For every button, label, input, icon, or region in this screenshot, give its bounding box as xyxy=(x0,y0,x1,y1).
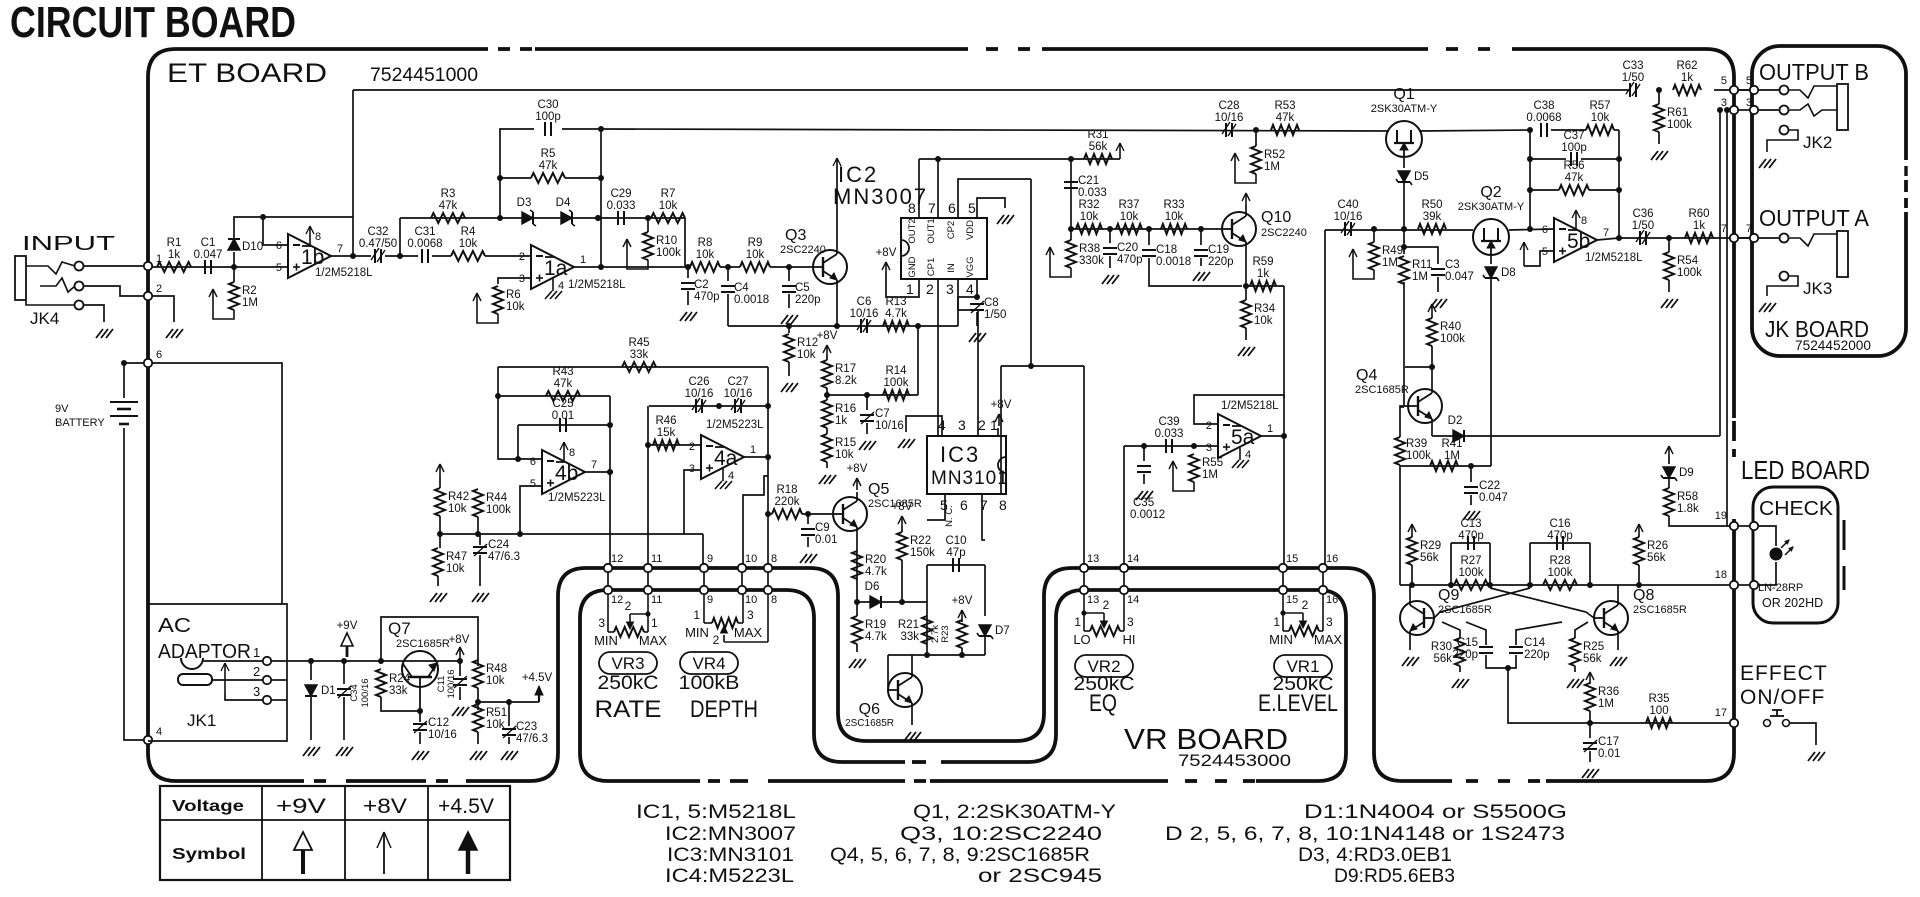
wire pin6 inner wire xyxy=(152,363,282,604)
svg-text:18: 18 xyxy=(1715,569,1727,581)
svg-text:13: 13 xyxy=(1087,594,1099,606)
wire line y129 xyxy=(601,129,1389,131)
svg-text:IC2:MN3007: IC2:MN3007 xyxy=(665,824,796,845)
resistor R10 xyxy=(643,232,681,260)
svg-text:2SC2240: 2SC2240 xyxy=(780,244,826,256)
pin 5 right xyxy=(1750,86,1758,94)
svg-text:C17: C17 xyxy=(1598,736,1619,748)
wire Q9 emitter xyxy=(1409,635,1411,650)
svg-text:R45: R45 xyxy=(628,337,649,349)
label VR1 oval xyxy=(1274,655,1332,677)
node Q4 coll node xyxy=(1429,364,1435,370)
wire pin10 dogleg xyxy=(743,476,768,564)
resistor R40 xyxy=(1427,318,1465,346)
svg-text:6: 6 xyxy=(948,200,956,216)
svg-text:10k: 10k xyxy=(448,503,467,515)
wire filter wire b xyxy=(770,266,813,268)
capacitor C35 xyxy=(1137,466,1151,472)
node op5b node xyxy=(1527,226,1533,232)
svg-text:2: 2 xyxy=(926,281,934,297)
svg-text:220k: 220k xyxy=(775,496,800,508)
node R5 r node xyxy=(598,175,604,181)
svg-text:VR4: VR4 xyxy=(692,654,725,673)
svg-text:2: 2 xyxy=(519,251,525,263)
wire pin9 col xyxy=(702,534,704,564)
svg-text:0.47/50: 0.47/50 xyxy=(359,238,397,250)
svg-text:0.0018: 0.0018 xyxy=(1156,256,1191,268)
IC2 MN3007 box xyxy=(901,200,987,297)
pin 15 ET xyxy=(1279,564,1287,572)
wire output B long wire xyxy=(353,89,1629,91)
svg-text:8: 8 xyxy=(908,200,916,216)
capacitor C19 xyxy=(1194,250,1208,256)
svg-text:LN-28RP: LN-28RP xyxy=(1758,582,1803,594)
+8V label Q5 xyxy=(847,463,868,475)
svg-text:2SK30ATM-Y: 2SK30ATM-Y xyxy=(1458,201,1525,213)
wire C25 line xyxy=(518,424,610,426)
capacitor C13 xyxy=(1458,518,1484,550)
wire pin13 col xyxy=(1083,366,1085,564)
wire LED wire bottom xyxy=(1758,562,1776,585)
+8V arrow R36 arrow xyxy=(1586,672,1594,682)
svg-text:R28: R28 xyxy=(1549,555,1570,567)
pin18 label xyxy=(1715,569,1727,581)
svg-text:D 2, 5, 6, 7, 8, 10:1N4148 or: D 2, 5, 6, 7, 8, 10:1N4148 or 1S2473 xyxy=(1165,824,1565,845)
capacitor C8 xyxy=(970,301,984,313)
+8V arrow D9 arrow xyxy=(1665,446,1673,456)
+8V bottom label xyxy=(0,0,1,1)
resistor R22 xyxy=(897,532,935,560)
svg-text:220p: 220p xyxy=(1452,649,1478,661)
wire R19 lead xyxy=(856,602,858,616)
resistor R36 xyxy=(1585,683,1619,711)
wire R39 bottom xyxy=(1399,465,1401,585)
wire Q6 base line xyxy=(927,654,985,656)
op1b pin7 xyxy=(337,243,343,255)
svg-text:3: 3 xyxy=(689,463,695,475)
ground R54 ground xyxy=(1661,299,1678,308)
wire IC2 pin5 wire xyxy=(977,198,1005,218)
resistor R54 xyxy=(1664,252,1702,280)
capacitor C36 xyxy=(1632,208,1654,245)
capacitor C5 xyxy=(782,286,796,292)
svg-text:10k: 10k xyxy=(1254,315,1273,327)
resistor R8 xyxy=(690,237,720,272)
ground C34 ground xyxy=(336,747,353,756)
svg-text:2: 2 xyxy=(713,633,720,647)
jack JK4 xyxy=(15,256,84,328)
svg-text:C33: C33 xyxy=(1622,60,1643,72)
resistor R61 xyxy=(1654,104,1692,132)
svg-text:C3: C3 xyxy=(1445,259,1460,271)
svg-text:C39: C39 xyxy=(1158,416,1179,428)
IC2 label xyxy=(833,162,928,209)
LED label xyxy=(1758,582,1823,610)
wire R2 branch xyxy=(233,267,235,282)
capacitor C17 xyxy=(1583,740,1597,752)
svg-text:D1: D1 xyxy=(321,685,336,697)
wire battery top wire xyxy=(123,363,125,398)
diode D9 xyxy=(1661,467,1694,481)
wire pin15 col xyxy=(1283,436,1285,564)
svg-text:R31: R31 xyxy=(1087,129,1108,141)
svg-text:1a: 1a xyxy=(544,257,568,280)
diode D5 xyxy=(1396,171,1429,185)
svg-text:C7: C7 xyxy=(875,408,890,420)
resistor R56 xyxy=(1559,160,1589,195)
svg-text:470p: 470p xyxy=(1547,530,1573,542)
wire D1 gnd lead xyxy=(310,697,312,740)
svg-text:Voltage: Voltage xyxy=(172,798,244,815)
svg-text:C5: C5 xyxy=(795,282,810,294)
ground R12 ground xyxy=(781,383,798,392)
svg-text:4: 4 xyxy=(966,281,974,297)
capacitor C15 xyxy=(1479,647,1493,653)
svg-text:D3: D3 xyxy=(517,197,532,209)
svg-text:33k: 33k xyxy=(389,685,408,697)
ground C9 ground xyxy=(800,554,817,563)
wire y466 line xyxy=(1400,465,1491,467)
svg-text:10k: 10k xyxy=(486,719,505,731)
svg-text:R17: R17 xyxy=(835,363,856,375)
svg-text:R6: R6 xyxy=(506,289,521,301)
diode D1 xyxy=(305,685,336,697)
reference arrow R49 ref xyxy=(1349,249,1374,279)
wire C2 gnd xyxy=(687,291,689,305)
svg-text:R23: R23 xyxy=(940,625,951,642)
resistor R32 xyxy=(1076,199,1102,234)
transistor Q3 xyxy=(813,250,847,284)
LED board dashes xyxy=(1843,520,1846,590)
svg-text:R42: R42 xyxy=(448,491,469,503)
svg-text:R10: R10 xyxy=(656,235,677,247)
svg-text:R49: R49 xyxy=(1382,245,1403,257)
wire C10 left col xyxy=(926,565,928,655)
node x598 218 xyxy=(595,215,601,221)
wire Q4 coll stub xyxy=(1405,366,1432,368)
wire jack switch wire A xyxy=(1719,110,1721,436)
svg-text:47k: 47k xyxy=(539,160,558,172)
parts list IC2:MN3007 xyxy=(665,824,796,845)
svg-text:10k: 10k xyxy=(1120,211,1139,223)
svg-text:R29: R29 xyxy=(1420,540,1441,552)
capacitor C16 xyxy=(1547,518,1573,550)
C7 label xyxy=(875,408,904,432)
node rail D1 node xyxy=(308,658,314,664)
wire +4.5 bus xyxy=(478,701,539,703)
+8V label Q7 xyxy=(449,634,470,646)
svg-text:0.01: 0.01 xyxy=(552,410,574,422)
svg-text:R25: R25 xyxy=(1583,641,1604,653)
svg-text:10: 10 xyxy=(745,594,757,606)
parts list Q1, 2:2SK30ATM-Y xyxy=(913,802,1116,823)
VR2 function xyxy=(1089,690,1117,717)
ground R61 ground xyxy=(1651,151,1668,160)
+8V symbol xyxy=(377,832,391,874)
svg-text:220p: 220p xyxy=(1208,256,1234,268)
ground C35 ground xyxy=(1136,491,1153,500)
ground pin2 ground xyxy=(166,329,183,338)
wire IC3 pin4 wire xyxy=(906,416,942,436)
wire R43 line xyxy=(498,395,610,397)
node C23 node xyxy=(506,699,512,705)
capacitor C39 xyxy=(1155,416,1184,453)
wire cross B xyxy=(1434,588,1530,618)
svg-text:VDD: VDD xyxy=(965,220,976,240)
pin 11 ET xyxy=(644,564,652,572)
pin17 label xyxy=(1715,707,1727,719)
wire R54 gnd xyxy=(1668,280,1670,292)
parts list IC4:M5223L xyxy=(665,866,794,887)
title CIRCUIT BOARD xyxy=(10,0,296,47)
op-amp 4b xyxy=(530,442,606,504)
svg-text:C21: C21 xyxy=(1078,175,1099,187)
R24 label xyxy=(389,673,411,697)
C8 label xyxy=(984,297,1006,321)
wire C16 lcol xyxy=(1529,543,1531,585)
svg-text:7: 7 xyxy=(980,497,988,513)
resistor R9 xyxy=(740,237,770,272)
wire C2 lead xyxy=(687,267,689,278)
ground C2 ground xyxy=(680,312,697,321)
svg-text:1/2M5223L: 1/2M5223L xyxy=(548,492,606,504)
parts list D9:RD5.6EB3 xyxy=(1334,866,1455,887)
svg-text:CHECK: CHECK xyxy=(1759,498,1834,520)
C9 label xyxy=(815,522,837,546)
svg-text:1/2M5218L: 1/2M5218L xyxy=(568,279,626,291)
wire C30 right xyxy=(562,128,601,130)
resistor R4 xyxy=(451,226,485,261)
node fb5b n5 xyxy=(1616,187,1622,193)
wire op1b out column xyxy=(352,90,354,256)
wire C22 lead xyxy=(1470,466,1472,482)
svg-text:C16: C16 xyxy=(1549,518,1570,530)
wire pin 15 link xyxy=(1282,572,1284,586)
svg-text:CP2: CP2 xyxy=(946,221,957,239)
ET board outline xyxy=(148,49,1734,781)
wire pin7 link xyxy=(1738,237,1750,239)
wire R17 top xyxy=(826,355,828,360)
pin 2 xyxy=(144,292,152,300)
wire Q5 emitter xyxy=(856,531,858,602)
svg-text:AC: AC xyxy=(158,615,191,637)
svg-text:R16: R16 xyxy=(835,403,856,415)
svg-text:10/16: 10/16 xyxy=(724,388,753,400)
wire R51 gnd xyxy=(477,732,479,744)
svg-text:OR 202HD: OR 202HD xyxy=(1762,596,1823,610)
node rail +8V node xyxy=(457,658,463,664)
wire pin 13 link xyxy=(1083,572,1085,586)
wire C13 rcol xyxy=(1489,543,1491,585)
wire C37 leads b xyxy=(1581,158,1619,160)
effect switch xyxy=(1764,710,1790,727)
svg-text:100k: 100k xyxy=(1667,119,1692,131)
resistor R25 xyxy=(1570,638,1604,666)
INPUT label xyxy=(22,233,115,255)
svg-text:+8V: +8V xyxy=(363,795,407,818)
potentiometer VR1 xyxy=(1269,594,1342,647)
wire y366 wire xyxy=(1001,365,1084,367)
capacitor C32 xyxy=(359,226,397,263)
+8V arrow R26 arrow xyxy=(1635,524,1643,534)
wire bias bus xyxy=(440,533,703,535)
wire pin 16 link xyxy=(1322,572,1324,586)
9V battery xyxy=(55,402,138,429)
wire y286 line xyxy=(1246,285,1284,287)
wire R31 line xyxy=(1071,158,1120,160)
wire IC2 pin4 wire xyxy=(976,279,978,297)
ground IC2 pin5 ground xyxy=(997,215,1014,224)
svg-text:5: 5 xyxy=(530,478,536,490)
potentiometer VR3 xyxy=(594,594,667,648)
resistor R1 xyxy=(157,237,191,272)
svg-text:100p: 100p xyxy=(535,111,561,123)
potentiometer VR4 xyxy=(685,594,768,647)
wire R42 lead xyxy=(439,478,441,488)
svg-text:VR3: VR3 xyxy=(611,654,644,673)
svg-text:ADAPTOR: ADAPTOR xyxy=(158,641,251,663)
node op1a out node xyxy=(598,264,604,270)
svg-text:0.0068: 0.0068 xyxy=(1526,112,1561,124)
svg-text:4: 4 xyxy=(728,470,734,482)
Q10 label xyxy=(1261,209,1307,239)
node y602 n0 xyxy=(854,599,860,605)
svg-text:330k: 330k xyxy=(1079,255,1104,267)
C5 label xyxy=(795,282,821,306)
pin 16 ET xyxy=(1319,564,1327,572)
resistor R49 xyxy=(1369,242,1403,270)
wire y229 right line xyxy=(1325,229,1473,231)
node ff n1 xyxy=(1448,582,1454,588)
ground C7 ground xyxy=(859,441,876,450)
svg-text:R11: R11 xyxy=(1412,259,1432,271)
wire IC2 pin6 wire xyxy=(958,179,1031,218)
ground C19 ground xyxy=(1193,272,1210,281)
svg-text:C14: C14 xyxy=(1524,637,1546,649)
wire pin6 wire xyxy=(124,362,144,364)
JK board dash gaps xyxy=(1901,160,1911,212)
ground C11 ground xyxy=(452,707,469,716)
+9V symbol xyxy=(294,832,312,874)
wire C4 bottom xyxy=(727,294,729,326)
wire op5b pin5 wire xyxy=(1524,251,1554,266)
wire R11 to Q4 xyxy=(1400,406,1404,408)
svg-text:100: 100 xyxy=(1649,705,1668,717)
VR2 value xyxy=(1074,674,1135,695)
VR board label xyxy=(1124,724,1291,770)
+9V label xyxy=(337,620,358,632)
svg-text:1/50: 1/50 xyxy=(984,309,1006,321)
svg-text:100k: 100k xyxy=(1406,450,1431,462)
wire C13 line xyxy=(1451,542,1490,544)
wire switch out xyxy=(1790,723,1816,745)
pin 13 ET xyxy=(1080,564,1088,572)
VR4 value xyxy=(679,673,740,694)
resistor R35 xyxy=(1646,693,1672,728)
+8V label IC3 xyxy=(991,399,1012,411)
svg-text:10k: 10k xyxy=(797,349,816,361)
wire Q6 emitter xyxy=(911,707,913,725)
svg-text:R40: R40 xyxy=(1440,321,1461,333)
svg-text:IC3:MN3101: IC3:MN3101 xyxy=(667,845,794,866)
resistor R26 xyxy=(1634,537,1668,565)
svg-text:3: 3 xyxy=(1326,615,1333,629)
svg-text:OUTPUT B: OUTPUT B xyxy=(1759,59,1869,85)
wire C38-R57 xyxy=(1551,129,1586,131)
svg-text:7: 7 xyxy=(591,459,597,471)
+9V arrow +9V rail arrow xyxy=(341,633,353,657)
op-amp 4a xyxy=(689,419,764,489)
wire op4b pin5 wire xyxy=(520,486,542,534)
op-amp 1a xyxy=(519,245,626,299)
wire D1 lead xyxy=(310,661,312,680)
VR1 function xyxy=(1258,690,1338,717)
reference arrow R55 ref xyxy=(1169,461,1194,491)
svg-text:4: 4 xyxy=(558,280,564,292)
svg-text:R15: R15 xyxy=(835,437,856,449)
node C22 node xyxy=(1468,463,1474,469)
svg-text:1/2M5218L: 1/2M5218L xyxy=(315,267,373,279)
svg-text:R56: R56 xyxy=(1563,160,1584,172)
svg-text:10k: 10k xyxy=(459,238,478,250)
svg-text:JK1: JK1 xyxy=(187,711,216,730)
wire x918 vert xyxy=(917,326,919,395)
svg-text:R18: R18 xyxy=(776,484,797,496)
wire pin3 link xyxy=(1738,109,1750,111)
svg-text:R43: R43 xyxy=(552,366,573,378)
wire JK1 pin3 wire xyxy=(225,693,262,700)
resistor R19 xyxy=(852,616,887,644)
wire R6 wire xyxy=(498,278,531,284)
capacitor C40 xyxy=(1334,199,1363,236)
wire op4a pin2 xyxy=(683,444,701,446)
svg-text:10k: 10k xyxy=(1165,211,1184,223)
svg-text:10/16: 10/16 xyxy=(428,729,457,741)
node battery node xyxy=(121,360,127,366)
wire C5 gnd xyxy=(788,294,790,308)
svg-text:2: 2 xyxy=(1103,598,1110,612)
wire IC2 pin8 wire xyxy=(918,159,920,218)
pin 11 labels xyxy=(651,553,662,606)
transistor Q8 xyxy=(1594,601,1628,635)
svg-text:6: 6 xyxy=(156,349,162,361)
svg-text:R30: R30 xyxy=(1431,641,1452,653)
node x768 n1 xyxy=(765,403,771,409)
ground R19 ground xyxy=(849,659,866,668)
wire R36 top xyxy=(1589,682,1591,684)
node y159 node xyxy=(1068,156,1074,162)
svg-text:C29: C29 xyxy=(610,188,631,200)
svg-text:2SC1685R: 2SC1685R xyxy=(845,718,894,729)
wire Q1 source xyxy=(1403,157,1405,168)
svg-text:1M: 1M xyxy=(242,297,258,309)
CHECK label xyxy=(1759,498,1834,520)
resistor R51 xyxy=(473,704,483,732)
resistor R15 xyxy=(822,434,856,462)
svg-text:11: 11 xyxy=(651,553,662,565)
svg-text:C8: C8 xyxy=(984,297,999,309)
node ff n3 xyxy=(1527,582,1533,588)
wire C15 top xyxy=(1466,622,1486,645)
node R36 node xyxy=(1587,720,1593,726)
node q6b n xyxy=(959,652,965,658)
svg-text:7: 7 xyxy=(928,200,936,216)
svg-text:2SC1685R: 2SC1685R xyxy=(1355,384,1409,396)
svg-text:1M: 1M xyxy=(1598,698,1614,710)
svg-text:R61: R61 xyxy=(1667,107,1688,119)
pin4 label xyxy=(156,726,162,738)
VR3 function xyxy=(595,696,662,723)
